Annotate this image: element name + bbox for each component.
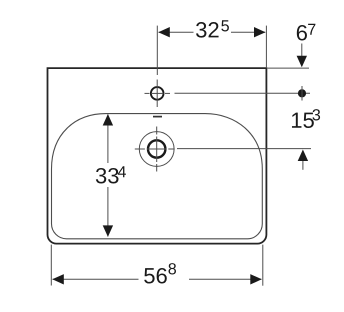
tap hole centerlines — [145, 80, 171, 108]
drain outer circle — [139, 132, 174, 167]
arrow up 15.3 — [298, 150, 308, 162]
dimension 6.7 ref line top — [267, 67, 309, 69]
dimension 56.8 extension line right — [262, 245, 264, 286]
dimension line 32.5 — [159, 31, 266, 33]
dimension 56.8 extension line left — [50, 245, 52, 286]
label 56^8 — [144, 268, 167, 284]
tap hole — [151, 87, 164, 100]
drain centerlines — [135, 127, 175, 172]
dimension 32.5 extension line left (tap hole axis) — [156, 26, 158, 75]
arrow left 56.8 — [52, 274, 64, 284]
basin inner outline — [52, 114, 263, 239]
overflow slot — [153, 116, 162, 118]
arrow down 33.4 — [103, 225, 113, 237]
dot marker at tap level — [298, 89, 306, 97]
label 33^4 — [96, 168, 119, 184]
dimension line 56.8 — [53, 278, 262, 280]
arrow up 33.4 — [103, 114, 113, 126]
drain level ref line — [177, 148, 311, 150]
tap hole level ref line — [175, 92, 311, 94]
arrow down 6.7 — [301, 44, 303, 58]
arrow right 32.5 — [254, 27, 266, 37]
arrow left 32.5 — [158, 27, 170, 37]
label 15^3 — [292, 113, 314, 128]
arrow right 56.8 — [250, 274, 261, 284]
drain hole — [148, 140, 165, 157]
dimension 32.5 extension line right — [265, 26, 267, 69]
dimension line 33.4 vertical — [107, 115, 109, 237]
label 32^5 — [196, 22, 219, 38]
washbasin outer outline — [48, 68, 267, 244]
label 6^7 — [297, 25, 307, 41]
